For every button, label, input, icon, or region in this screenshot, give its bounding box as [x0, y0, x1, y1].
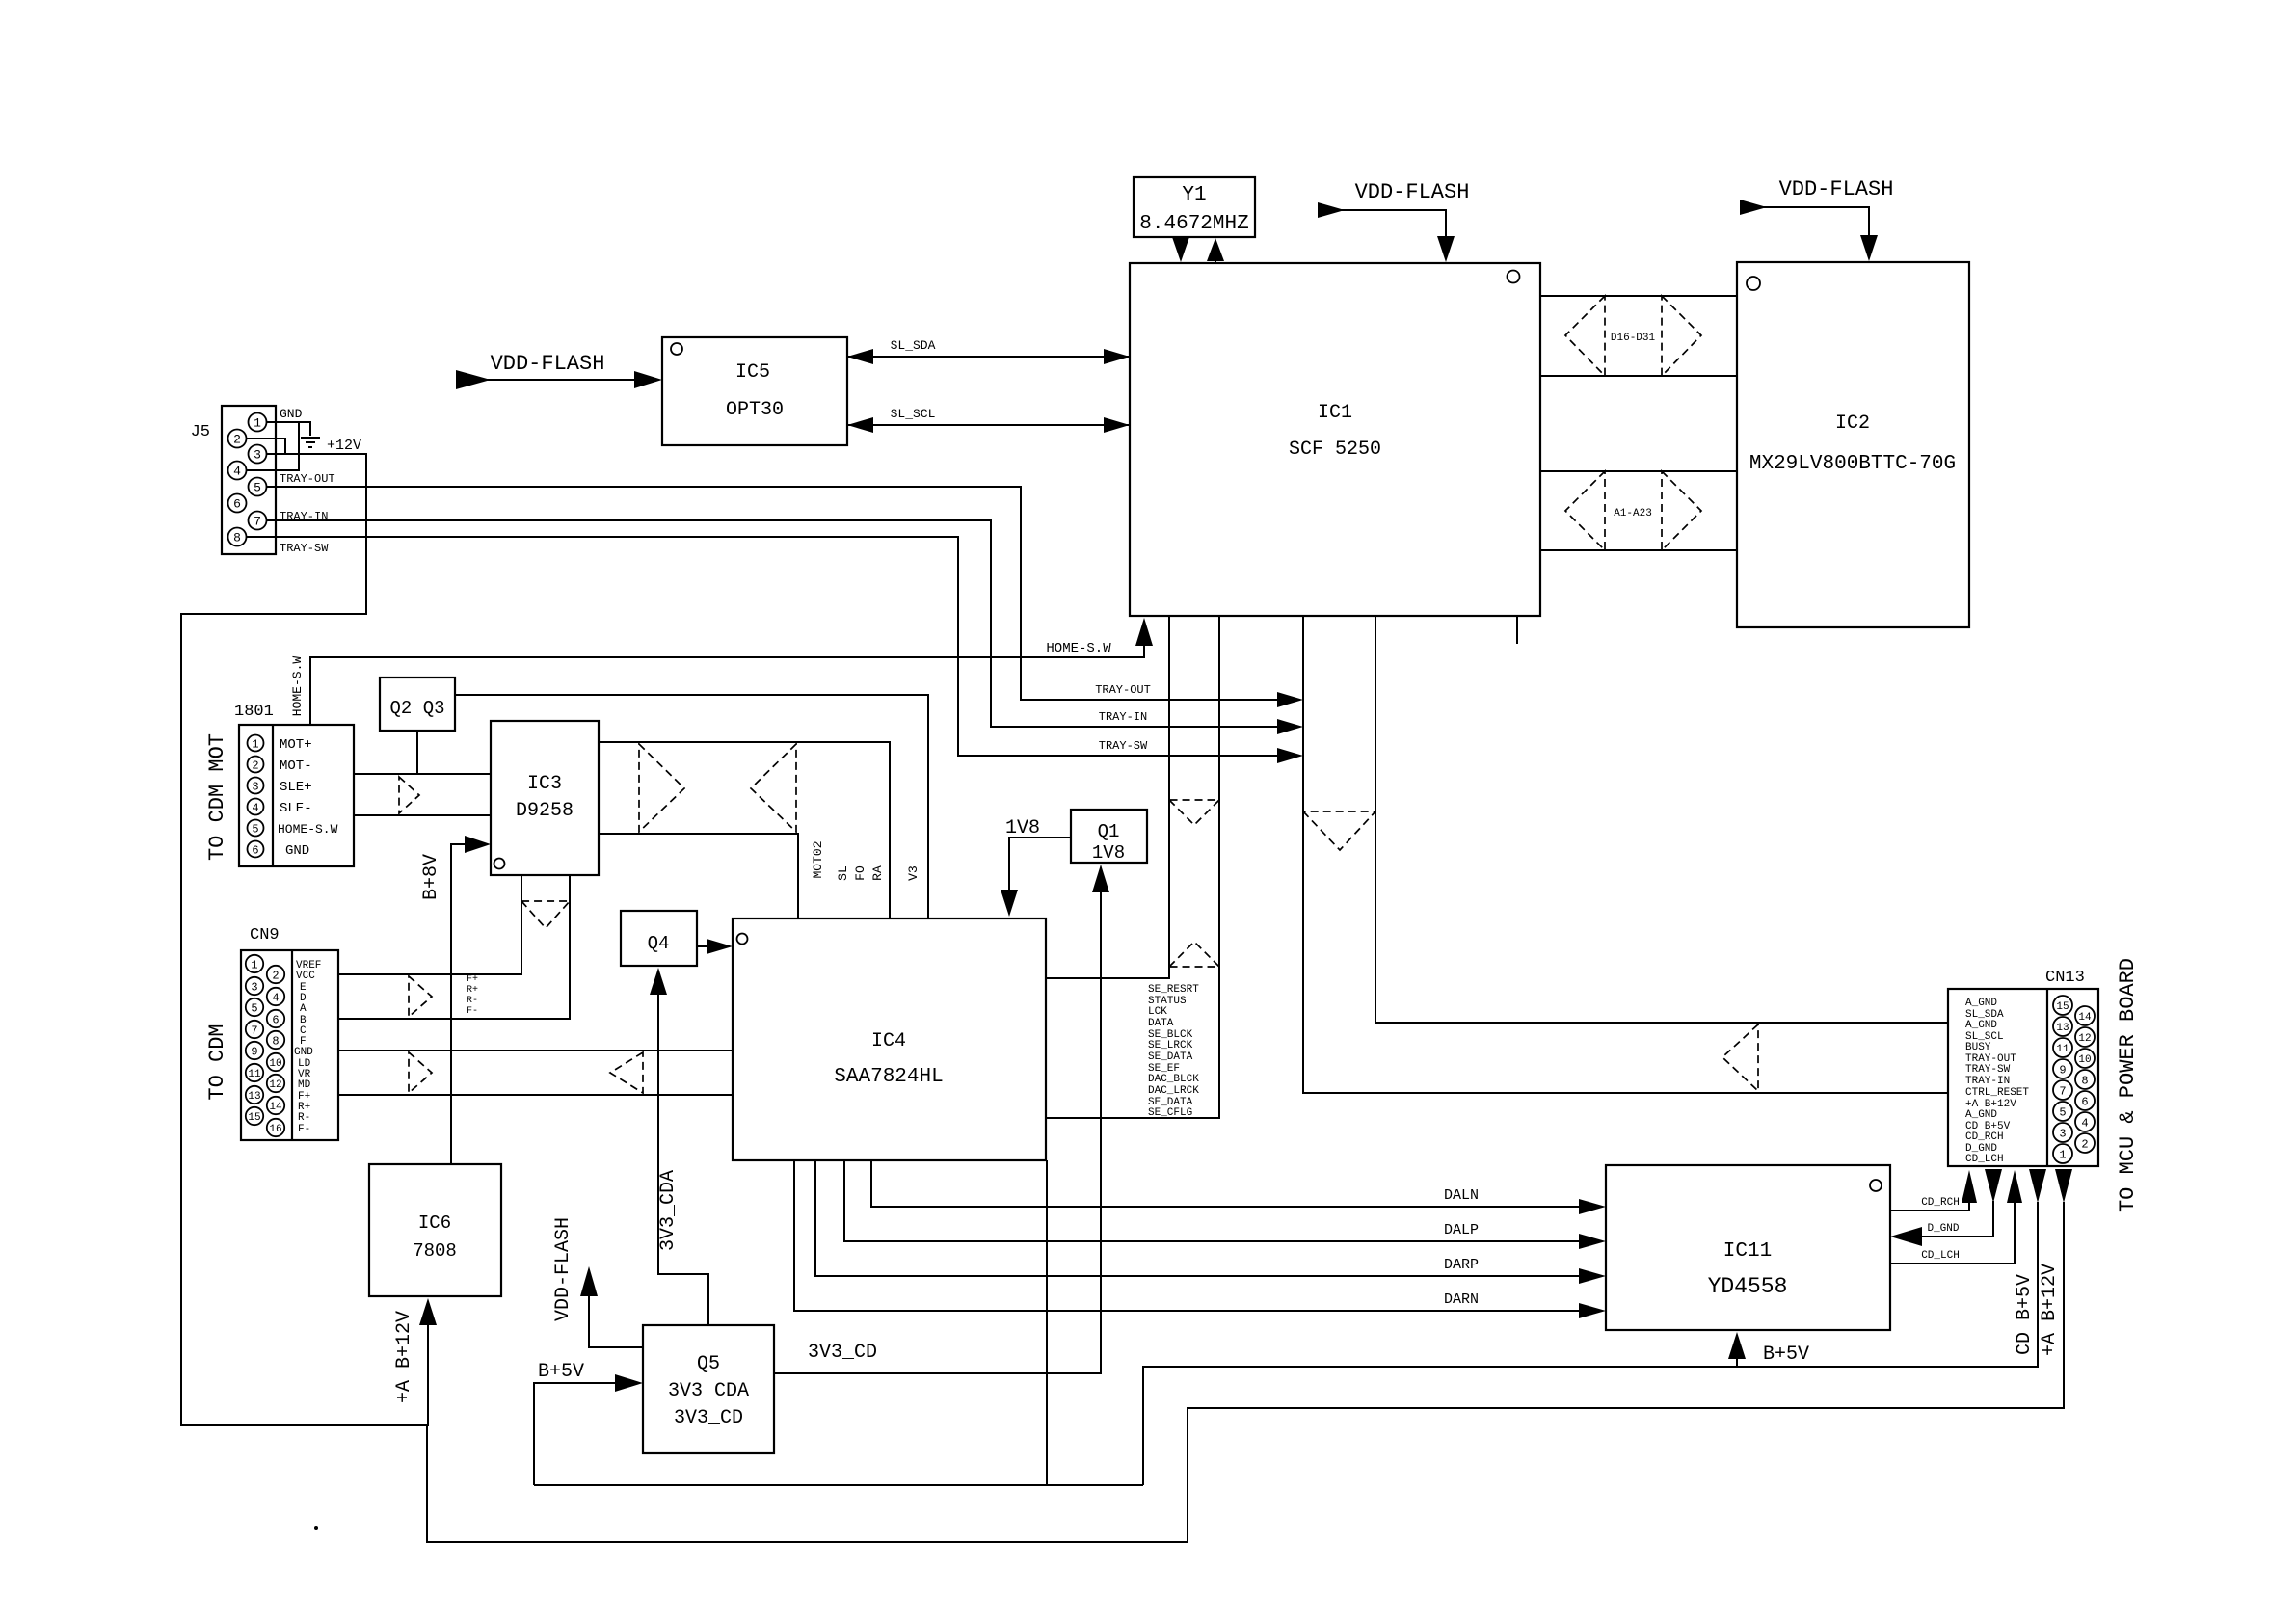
- svg-text:1V8: 1V8: [1005, 817, 1040, 839]
- wire IC1 bottom stub: [1516, 616, 1518, 644]
- svg-text:GND: GND: [285, 843, 309, 859]
- 1801 pin 2: [248, 757, 264, 773]
- svg-text:4: 4: [233, 465, 241, 479]
- svg-text:R-: R-: [298, 1112, 310, 1124]
- svg-text:IC3: IC3: [527, 773, 562, 795]
- CN9 pin 9: [246, 1042, 263, 1059]
- svg-text:MX29LV800BTTC-70G: MX29LV800BTTC-70G: [1749, 453, 1956, 475]
- arrowhead 3V3_CDA into Q4: [650, 968, 667, 995]
- optocoupler IC5 OPT30: [662, 337, 847, 445]
- arrowhead SL_SDA at IC1: [1104, 349, 1130, 364]
- svg-text:12: 12: [269, 1079, 281, 1091]
- svg-text:IC2: IC2: [1835, 412, 1870, 435]
- svg-text:15: 15: [2056, 1001, 2069, 1013]
- svg-text:A_GND: A_GND: [1965, 1109, 1997, 1121]
- svg-text:TO CDM MOT: TO CDM MOT: [205, 733, 229, 861]
- svg-text:3V3_CDA: 3V3_CDA: [657, 1170, 680, 1251]
- wire TRAY-IN from J5: [267, 520, 1280, 727]
- CN13 pin 2: [2075, 1133, 2095, 1153]
- svg-text:F+: F+: [467, 974, 478, 985]
- bus arrow D16-D31 left: [1565, 296, 1605, 376]
- bus arrow IC1 drop up: [1169, 942, 1219, 967]
- arrowhead +A B+12V into CN13: [2055, 1169, 2072, 1203]
- arrowhead CD_RCH into CN13: [1962, 1170, 1977, 1203]
- wire TRAY-OUT from J5: [267, 487, 1280, 700]
- regulator Q5 3V3: [643, 1325, 774, 1453]
- arrowhead TRAY-OUT: [1277, 692, 1303, 707]
- svg-text:VDD-FLASH: VDD-FLASH: [491, 352, 605, 376]
- svg-text:Y1: Y1: [1182, 184, 1206, 206]
- svg-text:DALP: DALP: [1444, 1222, 1479, 1238]
- svg-text:FO: FO: [853, 865, 868, 881]
- svg-text:9: 9: [251, 1046, 257, 1059]
- CN9 pin 12: [267, 1075, 284, 1092]
- CN9 pin labels: [294, 960, 321, 1135]
- wire 3V3_CD Q5 to Q1: [774, 891, 1101, 1373]
- svg-text:MOT02: MOT02: [811, 840, 825, 878]
- svg-text:13: 13: [248, 1091, 260, 1103]
- svg-text:HOME-S.W: HOME-S.W: [1046, 641, 1111, 656]
- wire CD B+5V rail: [1143, 1202, 2038, 1485]
- bus arrow IC1 drop3 down: [1303, 811, 1375, 850]
- svg-text:5: 5: [251, 1002, 257, 1016]
- wire A1-A23 bus rails: [1540, 470, 1737, 472]
- svg-text:6: 6: [233, 497, 241, 512]
- J5 pin 4: [228, 462, 247, 480]
- arrowhead VDD-FLASH into IC2: [1860, 235, 1878, 261]
- svg-text:12: 12: [2078, 1033, 2091, 1045]
- svg-text:B+5V: B+5V: [538, 1361, 584, 1383]
- J5 pin 1: [249, 413, 267, 432]
- CN9 pin 16: [267, 1119, 284, 1136]
- arrowhead TRAY-IN: [1277, 719, 1303, 734]
- wire J5 pin2 to +12V: [246, 439, 285, 454]
- wire CD_RCH IC11 to CN13: [1890, 1203, 1969, 1211]
- svg-text:Q4: Q4: [648, 933, 670, 954]
- svg-text:YD4558: YD4558: [1708, 1274, 1788, 1299]
- svg-text:V3: V3: [906, 865, 921, 881]
- J5 pin 7: [249, 512, 267, 530]
- 1801 pin 6: [248, 841, 264, 858]
- 1801 pin labels: [278, 737, 338, 859]
- svg-text:D9258: D9258: [516, 800, 574, 822]
- CN13 pin 11: [2053, 1038, 2072, 1057]
- J5 pin 3: [249, 445, 267, 464]
- svg-text:3V3_CD: 3V3_CD: [674, 1407, 743, 1429]
- svg-text:SL_SCL: SL_SCL: [891, 407, 936, 421]
- CN13 pin 9: [2053, 1059, 2072, 1078]
- wire IC1 drop to CN13 A_GND: [1375, 616, 1948, 1023]
- svg-text:RA: RA: [870, 865, 885, 881]
- arrowhead Y1 into IC1: [1172, 237, 1189, 262]
- svg-text:SE_LRCK: SE_LRCK: [1148, 1040, 1193, 1051]
- CN9 pin 3: [246, 977, 263, 995]
- wire D_GND to CN13: [1916, 1201, 1993, 1237]
- svg-text:MOT-: MOT-: [280, 758, 312, 774]
- CN13 pin 3: [2053, 1123, 2072, 1142]
- wire B+5V bottom rail: [534, 1484, 1143, 1486]
- wire CN9 F+ to IC4: [338, 1094, 733, 1096]
- arrowhead VDD-FLASH IC5 start: [456, 370, 491, 389]
- svg-text:CD_LCH: CD_LCH: [1921, 1250, 1960, 1262]
- connector CN9: [241, 926, 338, 1140]
- svg-text:SL_SDA: SL_SDA: [891, 338, 936, 353]
- bus arrow IC3 bottom: [521, 901, 570, 928]
- arrowhead into Y1: [1207, 238, 1224, 261]
- svg-text:8.4672MHZ: 8.4672MHZ: [1139, 213, 1248, 235]
- wire B+8V IC6 to IC3: [451, 844, 467, 1164]
- svg-text:7808: 7808: [413, 1240, 457, 1262]
- svg-text:A: A: [300, 1003, 307, 1015]
- svg-text:TRAY-OUT: TRAY-OUT: [280, 472, 335, 486]
- svg-text:CD_LCH: CD_LCH: [1965, 1154, 2004, 1165]
- CN9 pin 6: [267, 1010, 284, 1027]
- svg-text:3: 3: [252, 781, 258, 794]
- wire DALN IC4 to IC11: [871, 1160, 1581, 1207]
- bus arrow IC3-IC4 right: [639, 744, 684, 832]
- svg-text:10: 10: [269, 1058, 281, 1070]
- arrowhead HOME-S.W into IC1: [1135, 618, 1153, 646]
- arrowhead D_GND into CN13: [1985, 1169, 2002, 1203]
- svg-text:3: 3: [251, 981, 257, 995]
- svg-text:CD B+5V: CD B+5V: [2014, 1274, 2036, 1355]
- svg-text:OPT30: OPT30: [726, 399, 784, 421]
- wire DARN IC4 to IC11: [794, 1160, 1581, 1311]
- svg-text:3: 3: [2059, 1128, 2066, 1141]
- svg-text:1: 1: [252, 738, 258, 752]
- regulator IC6 7808: [369, 1164, 501, 1296]
- connector J5: [191, 406, 276, 554]
- svg-text:TRAY-IN: TRAY-IN: [1965, 1076, 2010, 1087]
- wire Q2 Q3 stub: [416, 731, 418, 774]
- svg-text:TRAY-OUT: TRAY-OUT: [1095, 683, 1151, 697]
- svg-text:D_GND: D_GND: [1927, 1223, 1959, 1235]
- svg-text:R+: R+: [467, 985, 478, 996]
- arrowhead CD_LCH into CN13: [2007, 1170, 2022, 1203]
- svg-text:4: 4: [252, 802, 258, 815]
- CN9 pin 1: [246, 955, 263, 972]
- svg-text:BUSY: BUSY: [1965, 1042, 1991, 1053]
- svg-text:3: 3: [254, 448, 261, 463]
- wire CD_LCH IC11 to CN13: [1890, 1203, 2015, 1264]
- svg-text:R-: R-: [467, 996, 478, 1006]
- wire IC1 bus drop 2 to IC4: [1046, 616, 1219, 1118]
- CN13 pin 7: [2053, 1080, 2072, 1100]
- svg-text:GND: GND: [280, 407, 303, 421]
- svg-text:IC11: IC11: [1723, 1240, 1772, 1263]
- CN13 pin 13: [2053, 1017, 2072, 1036]
- bus arrow CN9 lower: [409, 1052, 432, 1093]
- svg-text:2: 2: [252, 759, 258, 773]
- svg-text:Q2 Q3: Q2 Q3: [389, 698, 444, 719]
- svg-text:5: 5: [2059, 1106, 2066, 1120]
- svg-text:DAC_LRCK: DAC_LRCK: [1148, 1085, 1199, 1097]
- svg-text:SCF 5250: SCF 5250: [1289, 439, 1381, 461]
- svg-text:Q5: Q5: [697, 1353, 720, 1375]
- svg-text:LCK: LCK: [1148, 1006, 1167, 1018]
- 1801 pin 3: [248, 778, 264, 794]
- wire J5 pin4 to GND: [246, 422, 299, 470]
- arrowhead SL_SCL at IC1: [1104, 417, 1130, 433]
- svg-text:4: 4: [2081, 1117, 2088, 1131]
- wire CN9 B to IC3: [338, 875, 570, 1019]
- svg-text:A1-A23: A1-A23: [1614, 508, 1652, 519]
- connector 1801: [234, 703, 354, 866]
- svg-text:5: 5: [254, 481, 261, 495]
- wire VDD-FLASH to IC5: [482, 379, 636, 381]
- svg-text:4: 4: [272, 992, 279, 1005]
- wire VDD-FLASH to IC1: [1340, 210, 1446, 239]
- svg-text:MOT+: MOT+: [280, 737, 312, 753]
- CN13 pin 10: [2075, 1049, 2095, 1068]
- bus arrow CN13 left: [1722, 1024, 1758, 1091]
- svg-text:SLE-: SLE-: [280, 801, 312, 816]
- svg-text:DAC_BLCK: DAC_BLCK: [1148, 1074, 1199, 1085]
- arrowhead 3V3_CD into Q1: [1092, 865, 1109, 892]
- svg-text:7: 7: [251, 1024, 257, 1038]
- arrowhead SL_SDA at IC5: [847, 349, 873, 364]
- arrowhead +A B+12V into IC6: [419, 1298, 437, 1325]
- transistor Q4: [621, 911, 697, 966]
- svg-text:IC5: IC5: [735, 361, 770, 384]
- svg-text:2: 2: [2081, 1138, 2088, 1152]
- wire VDD-FLASH at Q5: [589, 1296, 643, 1347]
- svg-text:6: 6: [252, 844, 258, 858]
- bus arrow CN9 upper: [409, 976, 432, 1017]
- svg-text:D16-D31: D16-D31: [1611, 333, 1656, 344]
- svg-text:SE_CFLG: SE_CFLG: [1148, 1107, 1192, 1119]
- wire SL_SCL IC5 to IC1: [847, 424, 1130, 426]
- svg-text:HOME-S.W: HOME-S.W: [278, 822, 338, 837]
- svg-text:DATA: DATA: [1148, 1018, 1174, 1029]
- svg-text:1V8: 1V8: [1092, 842, 1125, 864]
- svg-text:+A B+12V: +A B+12V: [393, 1311, 415, 1403]
- wire DALP IC4 to IC11: [844, 1160, 1581, 1241]
- svg-text:F-: F-: [298, 1124, 310, 1135]
- svg-text:CD_RCH: CD_RCH: [1965, 1131, 2004, 1143]
- 1801 pin 5: [248, 820, 264, 837]
- svg-text:Q1: Q1: [1098, 821, 1120, 842]
- arrowhead DARP into IC11: [1579, 1268, 1606, 1284]
- driver IC3 D9258: [491, 721, 599, 875]
- svg-text:3V3_CD: 3V3_CD: [808, 1342, 877, 1364]
- svg-text:TO MCU & POWER BOARD: TO MCU & POWER BOARD: [2116, 958, 2140, 1212]
- svg-text:1: 1: [254, 416, 261, 431]
- svg-text:14: 14: [269, 1102, 282, 1113]
- J5 pin 2: [228, 430, 247, 448]
- bus arrow A1-A23 right: [1662, 471, 1701, 550]
- svg-text:DALN: DALN: [1444, 1187, 1479, 1204]
- op-amp IC11 YD4558: [1606, 1165, 1890, 1330]
- op-amp IC1 SCF 5250: [1130, 263, 1540, 616]
- wire B+5V into Q5: [534, 1383, 617, 1485]
- arrowhead VDD-FLASH into IC5: [634, 371, 662, 388]
- svg-text:6: 6: [272, 1014, 279, 1027]
- arrowhead SL_SCL at IC5: [847, 417, 873, 433]
- svg-text:1: 1: [251, 959, 257, 972]
- arrowhead DARN into IC11: [1579, 1303, 1606, 1318]
- wire CN9 GND to IC4: [338, 1050, 733, 1051]
- svg-text:B+5V: B+5V: [1763, 1344, 1809, 1366]
- label SE signal list: [1148, 984, 1199, 1119]
- svg-text:DARN: DARN: [1444, 1291, 1479, 1308]
- wire MOT02 IC3 to IC4: [599, 834, 798, 918]
- wire B+5V stub into IC11: [1736, 1357, 1738, 1367]
- svg-text:8: 8: [272, 1035, 279, 1049]
- svg-text:2: 2: [272, 970, 279, 983]
- wire IC1 drop to CN13 CTRL_RESET: [1303, 616, 1948, 1093]
- wire 1801 to IC3 upper: [354, 773, 491, 775]
- wire CN9 VCC to IC3: [338, 875, 521, 974]
- svg-text:CN9: CN9: [250, 926, 280, 945]
- arrowhead VDD-FLASH into IC1: [1437, 236, 1455, 262]
- svg-text:A_GND: A_GND: [1965, 998, 1997, 1009]
- wire 1V8 Q1 to IC4: [1009, 838, 1071, 893]
- J5 pin labels: [280, 407, 361, 555]
- wire V3 Q2Q3 to IC4: [455, 695, 928, 918]
- servo processor IC4 SAA7824HL: [733, 918, 1046, 1160]
- transistor pair Q2 Q3: [380, 678, 455, 731]
- svg-text:HOME-S.W: HOME-S.W: [290, 656, 305, 717]
- svg-text:8: 8: [233, 531, 241, 545]
- svg-text:10: 10: [2078, 1054, 2091, 1066]
- bus arrow 1801-IC3: [399, 777, 419, 813]
- wire SL_SDA IC5 to IC1: [847, 356, 1130, 358]
- CN9 pin 10: [267, 1053, 284, 1071]
- J5 pin 5: [249, 478, 267, 496]
- wire IC1 bus drop 1 to IC4: [1046, 616, 1169, 978]
- CN9 pin 5: [246, 998, 263, 1016]
- svg-text:8: 8: [2081, 1075, 2088, 1088]
- svg-text:2: 2: [233, 433, 241, 447]
- CN13 pin 5: [2053, 1102, 2072, 1121]
- svg-text:11: 11: [2056, 1044, 2069, 1055]
- svg-text:MD: MD: [298, 1079, 311, 1091]
- svg-text:CD_RCH: CD_RCH: [1921, 1197, 1960, 1209]
- bus arrow IC1 drop down: [1169, 800, 1219, 825]
- CN9 pin 11: [246, 1064, 263, 1081]
- bus arrow IC3-IC4 left: [751, 744, 796, 832]
- CN13 pin 8: [2075, 1070, 2095, 1089]
- arrowhead B+8V into IC3: [465, 836, 491, 853]
- wire 3V3_CDA to Q4 and Q5: [658, 993, 708, 1325]
- arrowhead TRAY-SW: [1277, 748, 1303, 763]
- wire DARP IC4 to IC11: [815, 1160, 1581, 1276]
- svg-text:GND: GND: [294, 1047, 313, 1058]
- arrowhead B+5V into Q5: [615, 1374, 643, 1392]
- CN9 pin 2: [267, 966, 284, 983]
- CN9 pin 15: [246, 1107, 263, 1125]
- CN13 pin labels: [1965, 998, 2029, 1165]
- arrowhead 1V8 into IC4: [1001, 890, 1018, 917]
- wire Y1 to IC1 stubs: [1180, 237, 1182, 241]
- svg-text:A_GND: A_GND: [1965, 1020, 1997, 1031]
- arrowhead VDD-FLASH at Q5: [580, 1266, 598, 1296]
- svg-text:DARP: DARP: [1444, 1257, 1479, 1273]
- 1801 pin 4: [248, 799, 264, 815]
- ground symbol: [301, 438, 320, 447]
- svg-text:IC6: IC6: [418, 1212, 451, 1234]
- CN13 pin 1: [2053, 1144, 2072, 1163]
- arrowhead DALP into IC11: [1579, 1234, 1606, 1249]
- CN13 pin 6: [2075, 1091, 2095, 1110]
- svg-text:IC1: IC1: [1318, 402, 1352, 424]
- arrowhead D_GND left: [1890, 1227, 1922, 1246]
- svg-text:+12V: +12V: [327, 438, 361, 454]
- connector CN13: [1948, 969, 2098, 1166]
- svg-text:1: 1: [2059, 1149, 2066, 1162]
- wire 1801 to IC3 lower: [354, 814, 491, 816]
- svg-text:SAA7824HL: SAA7824HL: [834, 1066, 943, 1088]
- svg-text:13: 13: [2056, 1023, 2069, 1034]
- svg-text:SE_RESRT: SE_RESRT: [1148, 984, 1199, 996]
- svg-text:16: 16: [269, 1124, 281, 1135]
- wire Q4 to IC4: [697, 945, 707, 947]
- label F+ R+ R- F- bundle: [467, 974, 478, 1017]
- svg-text:VDD-FLASH: VDD-FLASH: [552, 1217, 574, 1321]
- flash memory IC2 MX29LV800BTTC-70G: [1737, 262, 1969, 627]
- svg-text:1801: 1801: [234, 703, 274, 721]
- svg-text:VDD-FLASH: VDD-FLASH: [1355, 180, 1470, 204]
- wire HOME-S.W net: [310, 646, 1144, 725]
- bus arrow D16-D31 right: [1662, 296, 1701, 376]
- J5 pin 8: [228, 528, 247, 546]
- CN13 pin 14: [2075, 1006, 2095, 1025]
- svg-text:TO CDM: TO CDM: [205, 1024, 229, 1100]
- arrowhead VDD-FLASH IC2 start: [1740, 200, 1767, 215]
- arrowhead B+5V into IC11: [1728, 1332, 1746, 1359]
- svg-text:B+8V: B+8V: [420, 854, 442, 900]
- arrowhead VDD-FLASH IC1 start: [1318, 202, 1345, 218]
- arrowhead DALN into IC11: [1579, 1199, 1606, 1214]
- wire B+5V riser to IC4: [1046, 1160, 1048, 1485]
- crystal Y1 8.4672MHZ: [1134, 177, 1255, 237]
- CN13 pin 12: [2075, 1027, 2095, 1047]
- wire +12V +A B+12V net: [181, 454, 428, 1425]
- svg-text:9: 9: [2059, 1064, 2066, 1078]
- wire J5 GND pin1: [267, 422, 310, 436]
- svg-text:CTRL_RESET: CTRL_RESET: [1965, 1087, 2029, 1099]
- CN13 pin 15: [2053, 996, 2072, 1015]
- svg-text:7: 7: [2059, 1085, 2066, 1099]
- svg-text:SE_DATA: SE_DATA: [1148, 1051, 1193, 1063]
- CN9 pin 14: [267, 1097, 284, 1114]
- arrowhead CD B+5V into CN13: [2029, 1169, 2046, 1203]
- svg-text:15: 15: [248, 1112, 260, 1124]
- svg-text:TRAY-IN: TRAY-IN: [1099, 710, 1147, 724]
- svg-text:TRAY-SW: TRAY-SW: [280, 542, 329, 555]
- arrowhead Q4 into IC4: [707, 939, 733, 954]
- svg-text:VCC: VCC: [296, 971, 315, 982]
- svg-text:5: 5: [252, 823, 258, 837]
- svg-text:J5: J5: [191, 423, 210, 441]
- J5 pin 6: [228, 494, 247, 513]
- svg-text:+A B+12V: +A B+12V: [2039, 1264, 2061, 1356]
- svg-text:TRAY-SW: TRAY-SW: [1965, 1064, 2011, 1076]
- svg-text:6: 6: [2081, 1096, 2088, 1109]
- CN9 pin 4: [267, 988, 284, 1005]
- CN9 pin 8: [267, 1031, 284, 1049]
- svg-text:CN13: CN13: [2045, 969, 2085, 987]
- svg-text:F-: F-: [467, 1006, 478, 1017]
- svg-text:7: 7: [254, 515, 261, 529]
- CN9 pin 13: [246, 1086, 263, 1104]
- svg-text:14: 14: [2078, 1012, 2092, 1024]
- wire VDD-FLASH to IC2: [1762, 207, 1869, 238]
- CN9 pin 7: [246, 1021, 263, 1038]
- svg-text:SL: SL: [836, 865, 850, 881]
- svg-text:IC4: IC4: [871, 1030, 906, 1052]
